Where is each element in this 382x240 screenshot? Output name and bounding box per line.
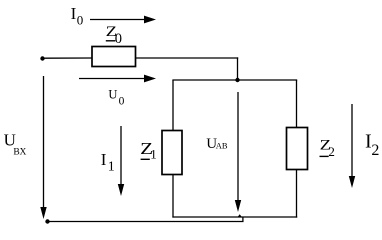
wire below Z2 to bottom rail bbox=[296, 170, 298, 218]
current I1 label bbox=[101, 150, 115, 175]
wire corner down to node B bbox=[237, 57, 239, 80]
wire right branch down to Z2 bbox=[296, 80, 298, 128]
svg-text:0: 0 bbox=[119, 96, 125, 108]
junction tip mark on bottom rail bbox=[237, 214, 242, 217]
current I0 label bbox=[71, 4, 84, 28]
svg-text:АВ: АВ bbox=[216, 140, 228, 150]
input voltage Uvx arrow bbox=[40, 76, 46, 219]
current I0 arrow bbox=[90, 16, 156, 24]
svg-text:I: I bbox=[101, 150, 107, 169]
node C (input bottom terminal dot) bbox=[45, 219, 49, 223]
label Z0 bbox=[106, 24, 122, 47]
impedance Z1 (left shunt box) bbox=[162, 131, 182, 175]
voltage UAB arrow bbox=[235, 92, 241, 212]
svg-text:0: 0 bbox=[115, 31, 122, 47]
svg-text:1: 1 bbox=[108, 160, 115, 175]
label Z1 bbox=[140, 139, 157, 162]
svg-text:0: 0 bbox=[77, 13, 84, 28]
current I2 arrow bbox=[349, 104, 355, 188]
top rail of parallel section bbox=[172, 79, 297, 81]
input voltage Uvx label bbox=[4, 131, 27, 158]
bottom rail of parallel section bbox=[172, 216, 297, 218]
label U0 bbox=[108, 88, 124, 108]
node A (input top terminal dot) bbox=[40, 56, 44, 60]
impedance Z2 (right shunt box) bbox=[287, 128, 308, 170]
current I1 arrow bbox=[118, 126, 124, 196]
svg-text:U: U bbox=[108, 88, 117, 102]
label UAB bbox=[206, 136, 228, 152]
voltage U0 arrow bbox=[79, 75, 156, 83]
svg-text:ВХ: ВХ bbox=[13, 147, 26, 157]
impedance Z0 (series box) bbox=[92, 47, 136, 67]
wire left branch down to Z1 bbox=[172, 80, 174, 131]
wire from node A to Z0 bbox=[43, 57, 93, 59]
current I2 label bbox=[365, 131, 379, 160]
main bottom wire bbox=[48, 221, 244, 223]
svg-text:2: 2 bbox=[371, 142, 379, 159]
label Z2 bbox=[320, 138, 335, 159]
wire below Z1 to bottom rail bbox=[172, 175, 174, 218]
jog wire connecting rails bbox=[242, 217, 244, 223]
node B junction dot bbox=[235, 78, 239, 82]
svg-text:I: I bbox=[71, 4, 77, 23]
svg-text:1: 1 bbox=[150, 147, 157, 162]
wire from Z0 to corner bbox=[136, 57, 239, 59]
svg-text:2: 2 bbox=[328, 144, 335, 159]
